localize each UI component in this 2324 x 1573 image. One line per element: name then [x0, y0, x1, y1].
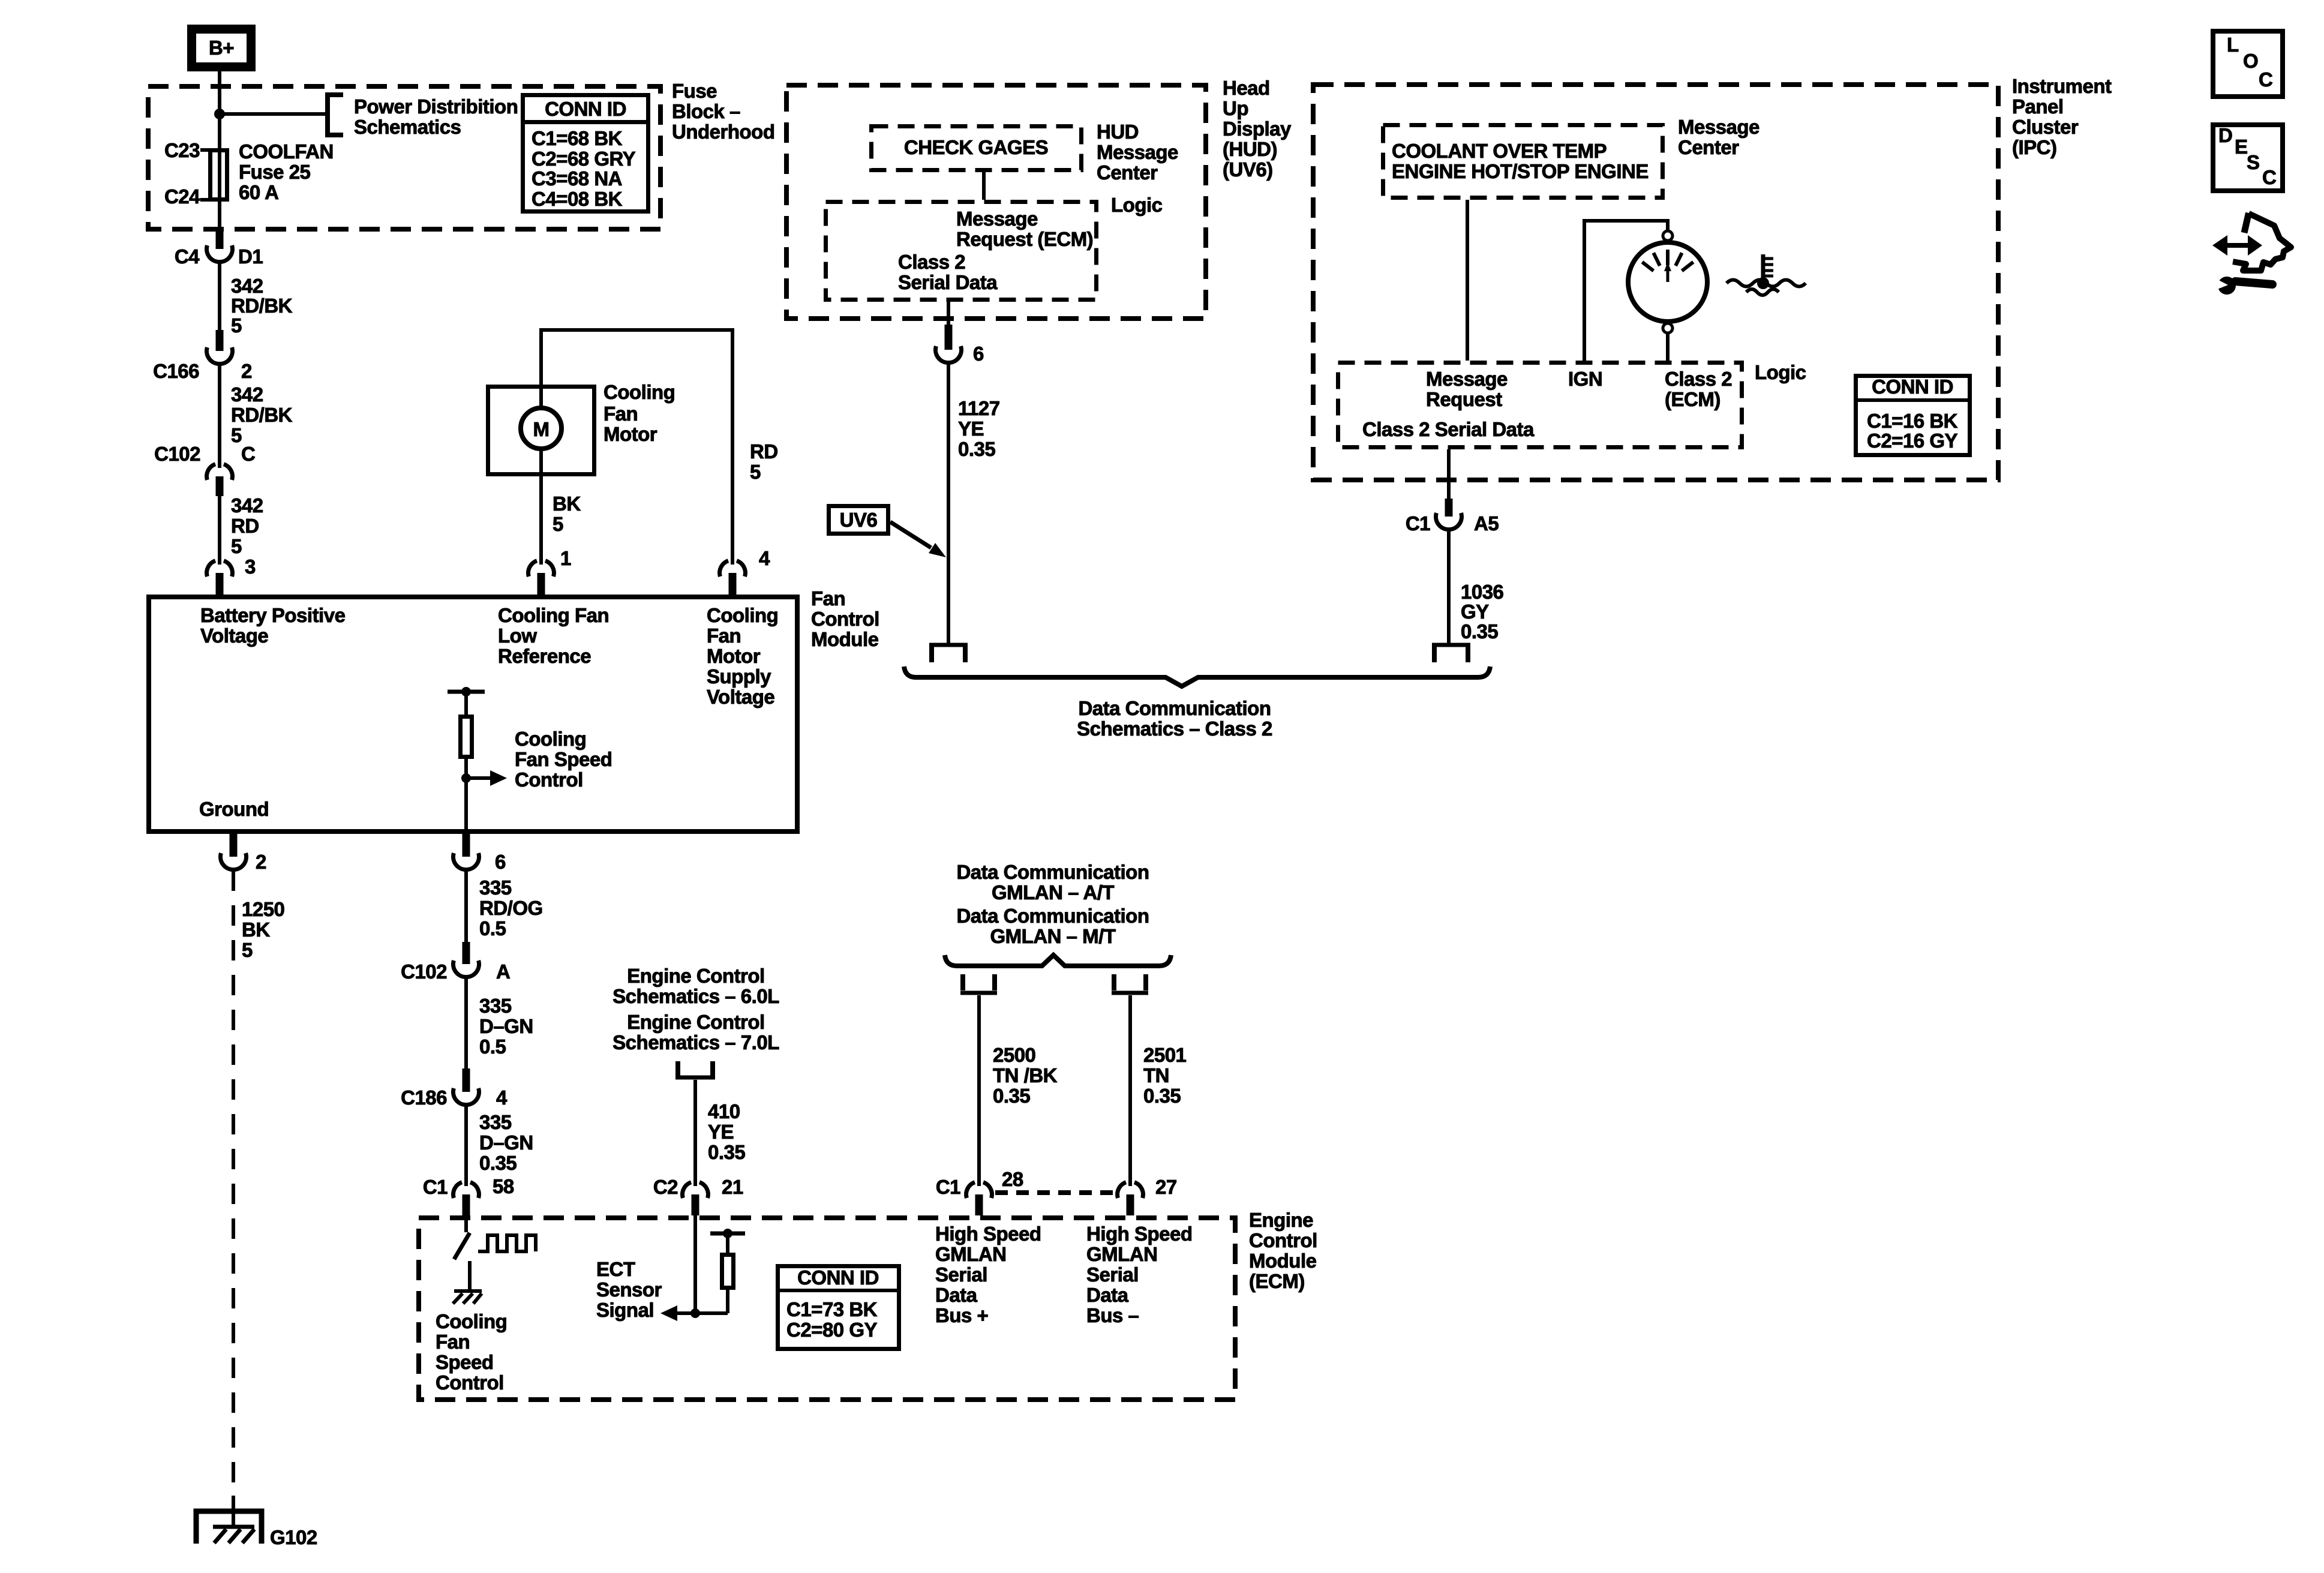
svg-text:4: 4	[759, 547, 770, 569]
svg-text:D–GN: D–GN	[479, 1131, 533, 1154]
svg-text:D1: D1	[238, 245, 263, 268]
svg-text:C1: C1	[936, 1176, 960, 1198]
svg-text:TN /BK: TN /BK	[993, 1064, 1058, 1086]
svg-text:Engine: Engine	[1249, 1209, 1313, 1231]
svg-text:Battery Positive: Battery Positive	[200, 604, 346, 626]
svg-text:Class 2 Serial Data: Class 2 Serial Data	[1362, 418, 1535, 440]
svg-text:0.35: 0.35	[958, 438, 995, 460]
svg-text:410: 410	[708, 1100, 740, 1122]
svg-text:C102: C102	[401, 960, 447, 983]
svg-text:0.5: 0.5	[479, 917, 506, 939]
svg-text:E: E	[2235, 136, 2248, 158]
svg-text:HUD: HUD	[1097, 121, 1139, 143]
svg-text:C: C	[2259, 68, 2272, 91]
svg-text:(ECM): (ECM)	[1249, 1270, 1305, 1292]
svg-text:5: 5	[231, 424, 242, 446]
svg-text:GMLAN: GMLAN	[1086, 1243, 1157, 1265]
svg-text:Fan: Fan	[707, 625, 741, 647]
svg-text:60 A: 60 A	[239, 181, 278, 203]
svg-text:CONN ID: CONN ID	[1872, 376, 1953, 398]
svg-text:Request (ECM): Request (ECM)	[956, 228, 1093, 250]
svg-text:TN: TN	[1143, 1064, 1169, 1086]
svg-text:Up: Up	[1223, 97, 1248, 119]
svg-text:5: 5	[242, 939, 253, 961]
svg-text:Fan Speed: Fan Speed	[515, 748, 612, 770]
svg-text:Block –: Block –	[672, 100, 740, 122]
svg-text:Cooling Fan: Cooling Fan	[498, 604, 609, 626]
svg-text:RD/BK: RD/BK	[231, 295, 293, 317]
svg-text:Center: Center	[1678, 136, 1739, 158]
svg-text:L: L	[2227, 34, 2239, 56]
svg-text:(IPC): (IPC)	[2012, 136, 2057, 158]
svg-text:Schematics – Class 2: Schematics – Class 2	[1077, 718, 1272, 740]
svg-text:335: 335	[479, 876, 512, 899]
svg-text:S: S	[2247, 151, 2260, 173]
svg-text:Schematics: Schematics	[354, 116, 461, 138]
svg-text:Cooling: Cooling	[603, 381, 675, 403]
svg-text:Speed: Speed	[436, 1351, 494, 1373]
svg-text:(UV6): (UV6)	[1223, 158, 1273, 181]
svg-text:B+: B+	[209, 37, 234, 59]
svg-text:Module: Module	[1249, 1250, 1317, 1272]
svg-text:Cooling: Cooling	[436, 1310, 507, 1332]
svg-text:C: C	[241, 443, 255, 465]
svg-text:BK: BK	[242, 918, 270, 941]
svg-text:RD: RD	[750, 440, 778, 463]
svg-text:0.5: 0.5	[479, 1035, 506, 1058]
svg-text:High Speed: High Speed	[1086, 1223, 1193, 1245]
svg-text:Sensor: Sensor	[596, 1278, 662, 1301]
svg-text:Fuse: Fuse	[672, 80, 717, 102]
svg-text:(HUD): (HUD)	[1223, 138, 1277, 160]
svg-text:0.35: 0.35	[708, 1141, 745, 1163]
svg-text:2: 2	[241, 360, 252, 382]
svg-text:0.35: 0.35	[479, 1152, 517, 1174]
svg-text:C2=80 GY: C2=80 GY	[786, 1319, 877, 1341]
svg-text:Voltage: Voltage	[200, 625, 268, 647]
svg-text:Class 2: Class 2	[898, 251, 965, 273]
svg-text:CONN ID: CONN ID	[797, 1266, 879, 1289]
svg-text:Control: Control	[811, 608, 879, 630]
svg-text:Control: Control	[1249, 1229, 1317, 1251]
svg-text:Fan: Fan	[811, 587, 845, 610]
svg-text:C: C	[2262, 166, 2276, 188]
svg-text:Signal: Signal	[596, 1299, 654, 1321]
svg-text:3: 3	[245, 556, 256, 578]
svg-text:Schematics – 7.0L: Schematics – 7.0L	[612, 1031, 779, 1053]
svg-text:GMLAN – A/T: GMLAN – A/T	[992, 881, 1114, 903]
svg-text:D–GN: D–GN	[479, 1015, 533, 1037]
svg-text:Data Communication: Data Communication	[1078, 697, 1271, 719]
svg-text:ECT: ECT	[596, 1258, 635, 1280]
svg-text:Motor: Motor	[707, 645, 761, 667]
svg-text:COOLANT OVER TEMP: COOLANT OVER TEMP	[1392, 140, 1607, 162]
svg-text:Underhood: Underhood	[672, 121, 774, 143]
svg-text:1036: 1036	[1461, 581, 1504, 603]
svg-text:Ground: Ground	[199, 798, 269, 820]
svg-text:Cooling: Cooling	[515, 728, 586, 750]
svg-text:Supply: Supply	[707, 665, 771, 688]
svg-text:Data: Data	[935, 1284, 978, 1306]
svg-text:342: 342	[231, 494, 263, 517]
svg-text:Display: Display	[1223, 118, 1292, 140]
svg-text:342: 342	[231, 275, 263, 297]
svg-text:(ECM): (ECM)	[1665, 388, 1721, 410]
svg-text:6: 6	[495, 851, 506, 873]
svg-text:O: O	[2243, 50, 2258, 72]
svg-text:C102: C102	[154, 443, 200, 465]
svg-text:C2: C2	[653, 1176, 678, 1198]
svg-text:335: 335	[479, 995, 512, 1017]
svg-text:5: 5	[231, 535, 242, 557]
svg-text:C4=08 BK: C4=08 BK	[532, 188, 623, 210]
svg-text:Center: Center	[1097, 161, 1158, 184]
svg-text:RD: RD	[231, 515, 259, 537]
svg-text:YE: YE	[958, 418, 984, 440]
svg-text:Control: Control	[436, 1371, 504, 1394]
svg-text:Schematics – 6.0L: Schematics – 6.0L	[612, 985, 779, 1007]
svg-text:IGN: IGN	[1568, 368, 1602, 390]
svg-text:C24: C24	[164, 185, 200, 208]
svg-text:28: 28	[1002, 1168, 1023, 1190]
svg-text:Fuse 25: Fuse 25	[239, 161, 311, 183]
svg-text:2501: 2501	[1143, 1044, 1187, 1066]
svg-text:2500: 2500	[993, 1044, 1035, 1066]
svg-text:Instrument: Instrument	[2012, 75, 2112, 97]
svg-text:5: 5	[553, 513, 563, 535]
svg-text:Low: Low	[498, 625, 537, 647]
svg-text:1127: 1127	[958, 397, 1000, 419]
svg-text:C2=16 GY: C2=16 GY	[1867, 430, 1957, 452]
svg-text:0.35: 0.35	[1143, 1085, 1181, 1107]
svg-text:Bus +: Bus +	[935, 1304, 988, 1326]
svg-text:5: 5	[231, 314, 242, 337]
svg-text:Serial Data: Serial Data	[898, 271, 998, 293]
svg-text:Cooling: Cooling	[707, 604, 778, 626]
svg-text:YE: YE	[708, 1121, 734, 1143]
svg-text:A5: A5	[1474, 512, 1499, 535]
svg-text:Logic: Logic	[1111, 194, 1163, 216]
svg-text:Power Distribition: Power Distribition	[354, 95, 518, 118]
svg-text:Module: Module	[811, 628, 879, 650]
svg-text:342: 342	[231, 383, 263, 406]
svg-text:G102: G102	[270, 1526, 317, 1548]
svg-text:Data Communication: Data Communication	[956, 861, 1149, 883]
svg-text:C4: C4	[175, 245, 200, 268]
svg-text:Serial: Serial	[935, 1263, 987, 1286]
svg-text:Engine Control: Engine Control	[627, 965, 764, 987]
svg-text:C1: C1	[423, 1176, 448, 1198]
svg-text:Logic: Logic	[1755, 361, 1806, 383]
svg-text:M: M	[533, 418, 550, 440]
svg-text:C186: C186	[401, 1086, 447, 1109]
svg-text:Voltage: Voltage	[707, 686, 774, 708]
svg-text:RD/OG: RD/OG	[479, 897, 543, 919]
svg-text:58: 58	[493, 1175, 514, 1197]
svg-text:0.35: 0.35	[993, 1085, 1030, 1107]
svg-text:Data: Data	[1086, 1284, 1129, 1306]
svg-text:High Speed: High Speed	[935, 1223, 1041, 1245]
svg-text:Head: Head	[1223, 77, 1270, 99]
svg-text:Motor: Motor	[603, 423, 657, 445]
svg-text:RD/BK: RD/BK	[231, 404, 293, 426]
svg-text:C2=68 GRY: C2=68 GRY	[532, 148, 636, 170]
svg-text:Data Communication: Data Communication	[956, 905, 1149, 927]
svg-text:C1: C1	[1406, 512, 1430, 535]
svg-text:C1=73 BK: C1=73 BK	[786, 1298, 878, 1320]
svg-text:Cluster: Cluster	[2012, 116, 2079, 138]
svg-text:335: 335	[479, 1111, 512, 1133]
svg-text:4: 4	[496, 1086, 508, 1109]
svg-text:C1=68 BK: C1=68 BK	[532, 127, 623, 149]
svg-text:CONN ID: CONN ID	[545, 98, 626, 120]
svg-text:Panel: Panel	[2012, 95, 2064, 118]
svg-text:COOLFAN: COOLFAN	[239, 140, 334, 163]
svg-text:A: A	[496, 960, 510, 983]
svg-text:6: 6	[973, 343, 984, 365]
svg-text:Control: Control	[515, 769, 583, 791]
svg-text:Reference: Reference	[498, 645, 591, 667]
svg-text:GY: GY	[1461, 601, 1489, 623]
svg-text:5: 5	[750, 461, 761, 483]
svg-text:Class 2: Class 2	[1665, 368, 1732, 390]
svg-text:CHECK GAGES: CHECK GAGES	[904, 136, 1048, 158]
svg-text:C23: C23	[164, 139, 200, 161]
svg-text:Message: Message	[1426, 368, 1508, 390]
svg-text:2: 2	[256, 851, 266, 873]
svg-text:C166: C166	[153, 360, 199, 382]
svg-text:D: D	[2218, 124, 2232, 146]
svg-text:Message: Message	[1678, 116, 1759, 138]
svg-text:0.35: 0.35	[1461, 620, 1498, 643]
svg-text:C1=16 BK: C1=16 BK	[1867, 410, 1958, 432]
svg-text:Engine Control: Engine Control	[627, 1011, 764, 1033]
svg-text:Fan: Fan	[603, 403, 638, 425]
svg-text:Request: Request	[1426, 388, 1502, 410]
svg-text:Serial: Serial	[1086, 1263, 1139, 1286]
svg-text:27: 27	[1155, 1176, 1177, 1198]
svg-text:1250: 1250	[242, 898, 284, 920]
svg-text:21: 21	[722, 1176, 743, 1198]
svg-text:Bus –: Bus –	[1086, 1304, 1139, 1326]
svg-text:BK: BK	[553, 493, 581, 515]
svg-text:ENGINE HOT/STOP ENGINE: ENGINE HOT/STOP ENGINE	[1392, 160, 1649, 182]
svg-text:GMLAN – M/T: GMLAN – M/T	[990, 925, 1116, 947]
svg-text:C3=68 NA: C3=68 NA	[532, 167, 622, 190]
svg-text:1: 1	[560, 547, 571, 569]
svg-text:Message: Message	[1097, 141, 1178, 163]
svg-text:UV6: UV6	[840, 509, 878, 531]
svg-text:Fan: Fan	[436, 1331, 470, 1353]
svg-text:Message: Message	[956, 208, 1038, 230]
svg-text:GMLAN: GMLAN	[935, 1243, 1006, 1265]
